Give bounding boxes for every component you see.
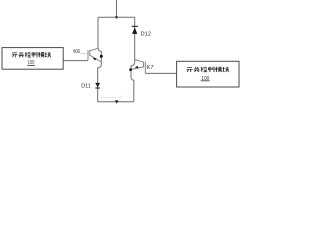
right box text line1 (186, 67, 228, 72)
transistor K6 (88, 48, 101, 61)
svg-text:K6: K6 (73, 49, 80, 55)
transistor K7 (132, 59, 146, 73)
drain lead (135, 59, 144, 62)
right box 100 underline (201, 80, 210, 82)
bus wire (98, 16, 135, 18)
svg-text:D11: D11 (81, 84, 91, 90)
gate bar (144, 62, 146, 74)
K7 node dot (129, 68, 132, 71)
wire left branch with jogs (98, 17, 102, 102)
channel bar (89, 50, 91, 55)
K6 node dot (100, 55, 103, 58)
junction dot top (115, 16, 118, 19)
bottom wire (98, 101, 134, 103)
source lead (132, 67, 144, 70)
svg-text:K7: K7 (147, 65, 154, 71)
svg-text:D12: D12 (141, 31, 152, 37)
K6 arrow (93, 58, 97, 61)
source lead (90, 55, 101, 61)
diode D12 (132, 28, 137, 34)
K6 pointer tick (81, 52, 88, 55)
K7 arrow (135, 66, 139, 69)
drain lead (90, 48, 98, 51)
D11 bar (95, 87, 100, 89)
right box module 100 (177, 61, 239, 87)
wire right branch with jogs (131, 17, 135, 102)
channel bar (143, 62, 145, 68)
left box module 100 (2, 48, 63, 70)
faint annotation staple (101, 96, 121, 98)
gate bar (87, 50, 89, 61)
K6 gate wire (63, 60, 88, 62)
top feed wire (116, 0, 118, 17)
bottom arrow (115, 100, 118, 103)
K7 gate wire (145, 72, 176, 74)
diode D12 bar (132, 25, 138, 27)
diode D11 (95, 83, 100, 87)
left box 100 underline (27, 64, 35, 66)
left box text line1 (12, 52, 51, 57)
